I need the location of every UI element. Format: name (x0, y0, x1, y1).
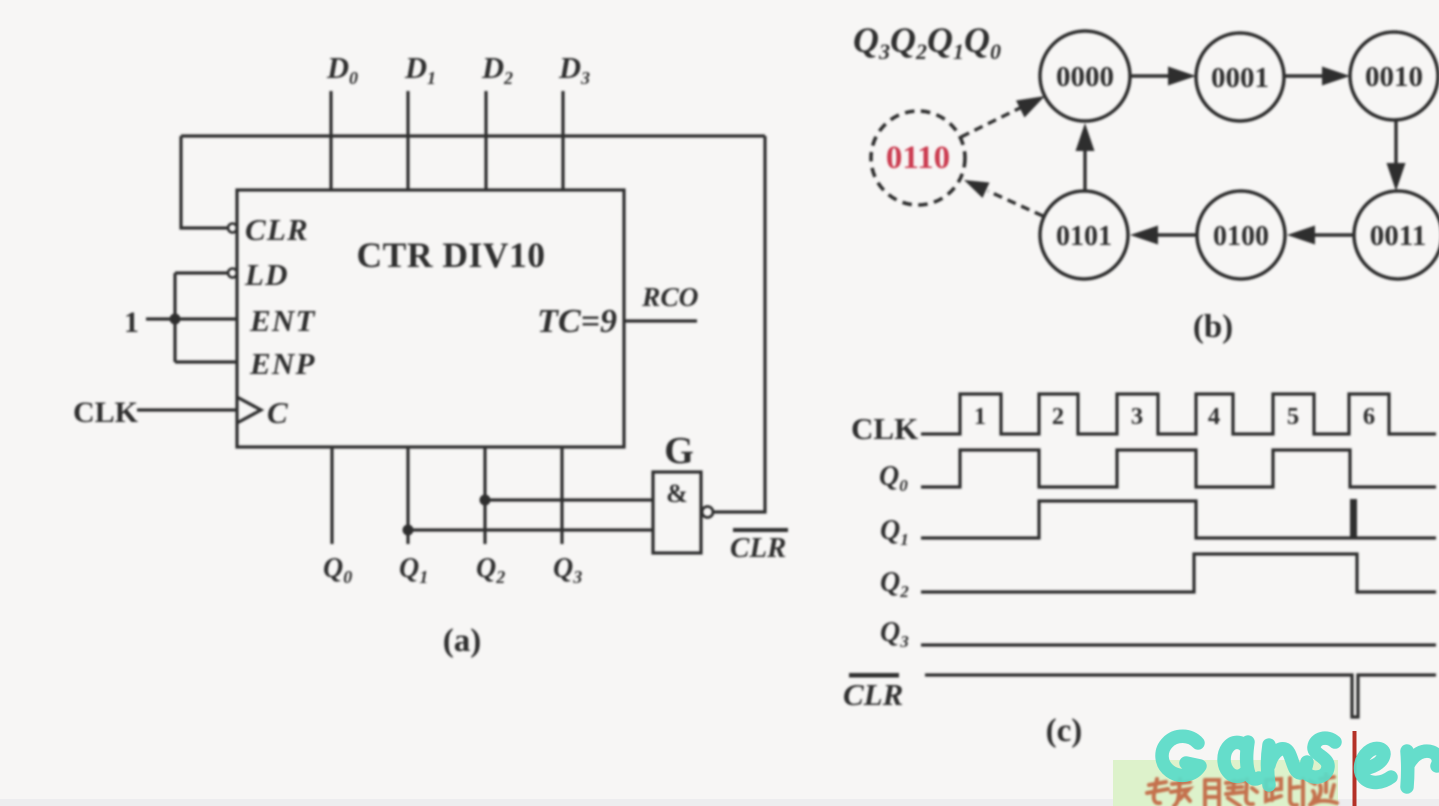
wire LD (175, 271, 228, 274)
svg-text:CLR: CLR (245, 212, 309, 247)
svg-text:&: & (666, 479, 688, 508)
svg-text:0001: 0001 (1211, 62, 1269, 94)
arrow 0000 to 0001 (1131, 67, 1196, 86)
wire Q2 to gate G input (485, 498, 653, 501)
svg-text:0101: 0101 (1056, 221, 1112, 252)
svg-text:0110: 0110 (886, 140, 950, 176)
state 0110 dashed circle (871, 111, 965, 205)
arrow 0011 to 0100 (1287, 226, 1354, 245)
svg-text:G: G (664, 430, 694, 472)
svg-text:CLK: CLK (73, 396, 139, 429)
arrow 0001 to 0010 (1285, 67, 1350, 86)
wire Q1 (406, 447, 409, 544)
red cursor line (1353, 731, 1357, 806)
wire D1 (406, 91, 409, 190)
gate G NAND body (653, 472, 701, 553)
wire D0 (329, 91, 332, 190)
svg-text:CLR: CLR (730, 532, 786, 564)
state 0100 circle (1197, 191, 1285, 279)
waveform CLR-bar (925, 675, 1436, 717)
svg-text:RCO: RCO (641, 281, 699, 312)
svg-text:0000: 0000 (1056, 61, 1114, 93)
arrow 0100 to 0101 (1130, 226, 1197, 245)
svg-text:6: 6 (1363, 403, 1375, 430)
svg-text:(c): (c) (1046, 713, 1083, 749)
dashed arrow 0101 to 0110 (964, 180, 1043, 216)
svg-text:1: 1 (124, 306, 139, 339)
pin CLR bubble (228, 224, 237, 233)
wire ENT (146, 317, 237, 320)
svg-text:3: 3 (1131, 403, 1143, 430)
pin C dynamic clock triangle (237, 397, 261, 423)
svg-text:4: 4 (1208, 403, 1220, 430)
svg-text:CLK: CLK (851, 411, 918, 446)
counter U1 box (237, 190, 624, 447)
caption 转瞬即逝 drawn as strokes (1147, 774, 1337, 806)
timing CLR-bar overline (849, 673, 899, 678)
state 0011 circle (1354, 191, 1439, 279)
svg-text:TC=9: TC=9 (537, 303, 617, 340)
svg-text:Q3Q2Q1Q0: Q3Q2Q1Q0 (853, 20, 1001, 64)
svg-text:0100: 0100 (1213, 221, 1269, 252)
state 0010 circle (1350, 32, 1438, 120)
svg-text:1: 1 (974, 403, 986, 430)
svg-text:(b): (b) (1193, 309, 1233, 345)
state 0001 circle (1196, 33, 1284, 121)
net CLR-bar overline (733, 528, 788, 532)
svg-text:ENP: ENP (249, 346, 316, 381)
svg-text:2: 2 (1052, 403, 1064, 430)
wire tie bracket LD-ENT-ENP (173, 273, 176, 362)
svg-text:ENT: ENT (249, 303, 316, 338)
wire ENP (175, 360, 237, 363)
wire Q0 (330, 447, 333, 544)
svg-text:C: C (267, 395, 288, 430)
wire RCO (624, 319, 697, 322)
wire CLK (137, 408, 237, 411)
svg-text:0011: 0011 (1370, 220, 1426, 252)
svg-text:(a): (a) (443, 623, 481, 659)
highlight box (1113, 760, 1338, 806)
wire D2 (484, 91, 487, 190)
waveform Q1 (921, 501, 1436, 538)
arrow 0101 to 0000 (1076, 123, 1095, 190)
wire CLR feedback left vertical (181, 136, 228, 228)
bottom strip (0, 799, 1439, 806)
svg-text:0010: 0010 (1365, 61, 1423, 93)
waveform Q2 (921, 554, 1436, 592)
waveform Q1 glitch spike (1350, 499, 1357, 537)
dashed arrow 0110 to 0000 (961, 96, 1045, 137)
state 0000 circle (1040, 31, 1130, 121)
wire D3 (561, 91, 564, 190)
junction dot Q2 (480, 495, 491, 506)
state 0101 circle (1040, 191, 1128, 279)
wire Q1 to gate G input (408, 528, 653, 531)
svg-text:5: 5 (1287, 403, 1299, 430)
svg-text:CTR DIV10: CTR DIV10 (357, 235, 546, 275)
waveform Q0 (921, 450, 1436, 487)
arrow 0010 to 0011 (1387, 121, 1406, 191)
svg-text:CLR: CLR (843, 677, 903, 712)
wire CLR feedback right vertical (714, 136, 765, 512)
junction dot node 1 (170, 314, 181, 325)
wire Q2 (483, 447, 486, 544)
wire CLR feedback top horizontal (181, 134, 765, 137)
waveform CLK (921, 394, 1436, 434)
waveform Q3 (921, 643, 1436, 646)
svg-text:LD: LD (244, 257, 289, 292)
watermark Ganser (1162, 736, 1438, 787)
junction dot Q1 (403, 525, 414, 536)
pin LD bubble (228, 269, 237, 278)
gate G output bubble (702, 507, 713, 518)
wire Q3 (560, 447, 563, 544)
